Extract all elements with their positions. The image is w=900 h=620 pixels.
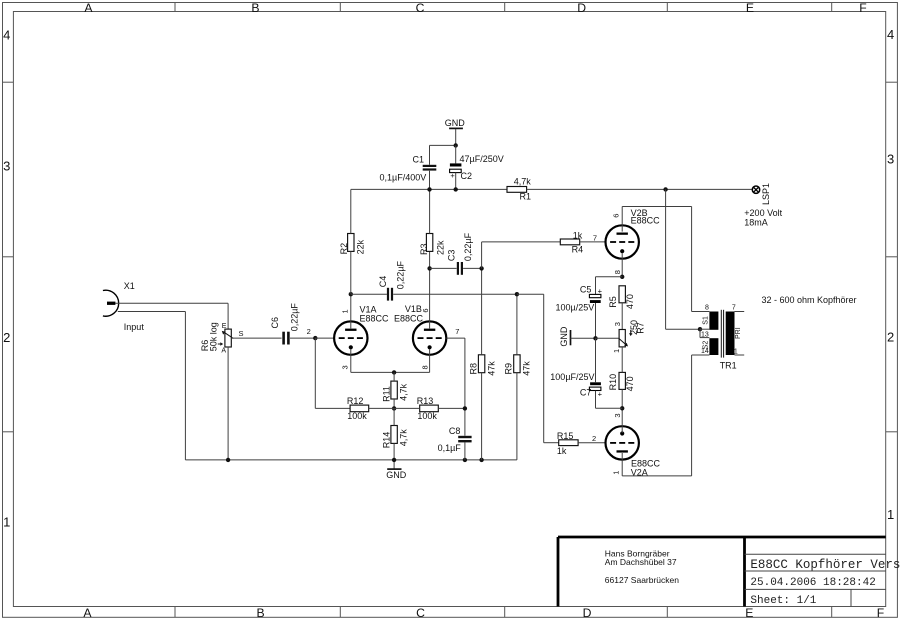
node grid V1B xyxy=(463,406,467,410)
svg-text:3: 3 xyxy=(887,152,894,167)
svg-text:R13: R13 xyxy=(417,396,434,406)
svg-text:50k log: 50k log xyxy=(208,322,218,351)
svg-text:2: 2 xyxy=(592,434,596,443)
node R11 bottom xyxy=(392,406,396,410)
svg-text:66127 Saarbrücken: 66127 Saarbrücken xyxy=(605,575,679,585)
node C1 C2 top xyxy=(454,143,458,147)
triode V1B xyxy=(413,321,446,354)
wire xyxy=(735,311,745,313)
svg-text:1: 1 xyxy=(341,309,350,313)
wire xyxy=(482,241,561,243)
resistor R9 xyxy=(514,355,520,373)
svg-text:X1: X1 xyxy=(124,281,135,291)
svg-text:F: F xyxy=(859,1,866,15)
svg-text:R14: R14 xyxy=(382,432,392,449)
wire xyxy=(429,145,431,164)
svg-text:C5: C5 xyxy=(580,284,592,294)
svg-text:2: 2 xyxy=(887,330,894,345)
wire xyxy=(455,129,457,146)
wire xyxy=(350,189,352,233)
svg-text:1: 1 xyxy=(612,471,621,475)
wire xyxy=(464,443,466,460)
svg-text:4,7k: 4,7k xyxy=(398,383,408,401)
svg-text:3: 3 xyxy=(341,365,350,369)
wire xyxy=(185,459,228,461)
svg-text:R5: R5 xyxy=(608,296,618,308)
svg-text:3: 3 xyxy=(613,322,622,326)
resistor R11 xyxy=(391,381,397,399)
node R8 top xyxy=(479,266,483,270)
svg-text:47µF/250V: 47µF/250V xyxy=(460,154,504,164)
svg-text:V1B: V1B xyxy=(405,304,422,314)
wire xyxy=(699,329,701,337)
svg-text:R15: R15 xyxy=(557,431,574,441)
wire xyxy=(544,442,559,444)
wire xyxy=(464,338,466,436)
wire xyxy=(543,294,545,443)
wire xyxy=(621,303,623,330)
wire xyxy=(369,407,394,409)
wire xyxy=(314,338,316,408)
wire xyxy=(517,293,544,295)
svg-text:2: 2 xyxy=(3,330,10,345)
wire xyxy=(290,337,315,339)
wire xyxy=(393,443,395,460)
svg-text:8: 8 xyxy=(613,270,622,274)
wire xyxy=(438,407,465,409)
svg-text:LSP1: LSP1 xyxy=(761,183,771,205)
svg-text:13: 13 xyxy=(701,331,709,338)
svg-text:C1: C1 xyxy=(413,154,425,164)
ground xyxy=(449,127,463,129)
wire xyxy=(351,293,387,295)
potentiometer R7 xyxy=(619,330,625,347)
wire xyxy=(429,251,431,328)
svg-text:18mA: 18mA xyxy=(744,217,768,227)
resistor R4 xyxy=(560,239,579,245)
wire xyxy=(429,189,431,233)
wire xyxy=(351,188,507,190)
svg-text:+: + xyxy=(598,286,603,295)
svg-text:F: F xyxy=(877,606,884,620)
triode V1A xyxy=(334,321,367,354)
wire xyxy=(596,276,623,278)
wire xyxy=(691,207,693,312)
svg-text:100k: 100k xyxy=(417,411,437,421)
wire xyxy=(350,294,352,328)
ground xyxy=(570,330,572,345)
wire xyxy=(595,277,597,295)
wire xyxy=(595,391,597,409)
node R9 top xyxy=(515,292,519,296)
capacitor C1 xyxy=(423,165,437,167)
connector X1 xyxy=(103,290,119,316)
svg-text:TR1: TR1 xyxy=(720,361,737,371)
capacitor C8 xyxy=(458,436,471,438)
svg-text:0,22µF: 0,22µF xyxy=(289,303,299,332)
capacitor C2 xyxy=(450,163,462,166)
wire xyxy=(571,337,596,339)
svg-text:470: 470 xyxy=(625,294,635,309)
svg-text:A: A xyxy=(83,606,92,620)
transformer TR1 xyxy=(709,312,718,330)
wire xyxy=(621,207,623,232)
svg-text:25.04.2006 18:28:42: 25.04.2006 18:28:42 xyxy=(750,577,875,589)
svg-text:R11: R11 xyxy=(382,386,392,402)
node C2 bus xyxy=(454,187,458,191)
svg-text:C6: C6 xyxy=(270,317,280,329)
resistor R15 xyxy=(559,440,578,446)
svg-text:R12: R12 xyxy=(347,396,364,406)
wire xyxy=(228,459,517,461)
wire xyxy=(393,399,395,408)
svg-text:C: C xyxy=(416,1,425,15)
svg-text:E: E xyxy=(745,606,753,620)
svg-text:0,22µF: 0,22µF xyxy=(463,232,473,261)
svg-text:6: 6 xyxy=(611,214,620,218)
svg-text:2: 2 xyxy=(307,327,311,336)
node TR1 pin13 xyxy=(698,327,702,331)
wire xyxy=(463,267,482,269)
svg-text:22k: 22k xyxy=(356,239,366,254)
svg-text:1: 1 xyxy=(734,349,738,356)
svg-text:C2: C2 xyxy=(461,171,473,181)
wire xyxy=(393,408,395,425)
svg-text:1: 1 xyxy=(3,515,10,530)
wire xyxy=(481,373,483,460)
wire xyxy=(735,354,745,356)
svg-text:E88CC: E88CC xyxy=(394,314,424,324)
potentiometer R6 xyxy=(225,329,231,347)
node V1A anode xyxy=(349,292,353,296)
node grid V1A xyxy=(313,336,317,340)
triode V2A xyxy=(606,426,639,459)
wire xyxy=(455,173,457,190)
svg-text:R8: R8 xyxy=(468,363,478,375)
node V2A top xyxy=(620,406,624,410)
svg-text:R7: R7 xyxy=(636,322,646,334)
wire xyxy=(578,442,605,444)
wire xyxy=(595,338,597,382)
svg-text:7: 7 xyxy=(455,327,459,336)
wire xyxy=(430,267,457,269)
wire xyxy=(596,337,619,339)
svg-text:4: 4 xyxy=(887,27,894,42)
wire xyxy=(622,206,691,208)
wire xyxy=(481,268,483,354)
svg-text:4: 4 xyxy=(3,28,10,43)
svg-text:100µF/25V: 100µF/25V xyxy=(550,372,594,382)
node R6 bottom xyxy=(226,458,230,462)
wire xyxy=(393,372,395,381)
wire xyxy=(350,349,352,372)
wire xyxy=(516,294,518,355)
svg-text:C7: C7 xyxy=(580,388,592,398)
svg-text:C8: C8 xyxy=(449,426,461,436)
node R14 bottom xyxy=(392,458,396,462)
node C8 bottom xyxy=(463,458,467,462)
svg-text:GND: GND xyxy=(386,470,407,480)
wire xyxy=(621,253,623,277)
wire xyxy=(700,337,709,339)
svg-text:100k: 100k xyxy=(347,411,367,421)
svg-text:3: 3 xyxy=(613,413,622,417)
resistor R8 xyxy=(478,355,484,373)
wire xyxy=(184,312,186,460)
resistor R13 xyxy=(420,405,439,412)
capacitor C3 xyxy=(457,262,459,275)
wire xyxy=(227,347,229,460)
svg-text:470: 470 xyxy=(625,376,635,391)
resistor R3 xyxy=(426,234,432,252)
svg-text:B: B xyxy=(251,1,259,15)
wire xyxy=(621,408,623,433)
svg-text:4,7k: 4,7k xyxy=(398,429,408,447)
svg-text:47k: 47k xyxy=(521,361,531,376)
wire xyxy=(580,241,606,243)
svg-text:+: + xyxy=(598,390,603,399)
ground xyxy=(393,460,395,469)
svg-text:0,1µF: 0,1µF xyxy=(438,443,462,453)
triode V2B xyxy=(606,225,639,258)
wire xyxy=(429,171,431,190)
svg-text:B: B xyxy=(257,606,265,620)
wire xyxy=(481,242,483,269)
svg-text:8: 8 xyxy=(421,365,430,369)
svg-text:GND: GND xyxy=(559,326,569,347)
wire xyxy=(115,302,228,304)
svg-text:7: 7 xyxy=(593,233,597,242)
svg-text:R4: R4 xyxy=(572,245,584,255)
wire xyxy=(596,407,623,409)
svg-text:Am Dachshübel 37: Am Dachshübel 37 xyxy=(605,557,677,567)
svg-text:R3: R3 xyxy=(419,243,429,255)
svg-text:S2: S2 xyxy=(703,341,710,350)
wire xyxy=(622,475,691,477)
resistor R1 xyxy=(507,187,527,193)
capacitor C5 xyxy=(589,294,601,297)
svg-text:S: S xyxy=(239,329,244,338)
capacitor C6 xyxy=(282,332,285,345)
svg-text:R9: R9 xyxy=(504,363,514,375)
svg-text:22k: 22k xyxy=(436,240,446,255)
wire xyxy=(315,407,350,409)
svg-text:D: D xyxy=(583,606,592,620)
wire xyxy=(700,328,709,330)
wire xyxy=(691,355,693,476)
svg-text:7: 7 xyxy=(732,305,736,312)
wire xyxy=(621,453,623,476)
svg-text:47k: 47k xyxy=(486,361,496,376)
resistor R5 xyxy=(619,286,625,303)
wire xyxy=(227,303,229,329)
wire xyxy=(692,311,710,313)
wire xyxy=(455,145,457,163)
svg-text:8: 8 xyxy=(705,305,709,312)
capacitor C4 xyxy=(387,288,389,301)
svg-text:+: + xyxy=(450,171,455,180)
wire xyxy=(527,188,752,190)
wire xyxy=(231,337,281,339)
svg-text:1: 1 xyxy=(887,507,894,522)
resistor R14 xyxy=(391,426,397,444)
resistor R10 xyxy=(619,372,625,389)
connector LSP1 xyxy=(752,186,759,193)
svg-text:E: E xyxy=(222,323,227,330)
svg-text:D: D xyxy=(577,1,586,15)
wire xyxy=(621,347,623,373)
svg-text:32 - 600 ohm Kopfhörer: 32 - 600 ohm Kopfhörer xyxy=(762,295,857,305)
resistor R2 xyxy=(348,234,354,252)
svg-text:4,7k: 4,7k xyxy=(514,177,532,187)
svg-text:E88CC: E88CC xyxy=(360,314,390,324)
svg-text:R2: R2 xyxy=(339,243,349,255)
svg-text:E88CC: E88CC xyxy=(631,216,661,226)
wire xyxy=(393,293,517,295)
svg-text:E: E xyxy=(746,1,754,15)
wire xyxy=(118,311,186,313)
wire xyxy=(666,328,700,330)
svg-text:GND: GND xyxy=(445,118,466,128)
wire xyxy=(692,354,710,356)
title block xyxy=(558,537,900,607)
svg-text:100µ/25V: 100µ/25V xyxy=(556,302,595,312)
wire xyxy=(315,337,334,339)
node C5 C7 mid xyxy=(593,336,597,340)
svg-text:PRI: PRI xyxy=(735,327,742,339)
svg-text:6: 6 xyxy=(421,308,430,312)
svg-text:R1: R1 xyxy=(520,191,532,201)
svg-text:3: 3 xyxy=(3,158,10,173)
svg-text:C4: C4 xyxy=(378,276,388,288)
wire xyxy=(621,389,623,408)
resistor R12 xyxy=(350,405,369,412)
svg-text:S1: S1 xyxy=(703,316,710,325)
wire xyxy=(446,337,465,339)
wire xyxy=(665,189,667,329)
svg-text:C: C xyxy=(416,606,425,620)
node B+ branch xyxy=(663,187,667,191)
wire xyxy=(429,349,431,372)
node V2B cathode xyxy=(620,275,624,279)
wire xyxy=(430,144,456,146)
svg-text:E88CC Kopfhörer Version 2: E88CC Kopfhörer Version 2 xyxy=(750,558,900,572)
svg-text:0,1µF/400V: 0,1µF/400V xyxy=(380,172,427,182)
svg-text:Sheet: 1/1: Sheet: 1/1 xyxy=(750,595,816,607)
svg-text:1k: 1k xyxy=(557,446,567,456)
svg-text:1: 1 xyxy=(612,349,621,353)
node R3 bottom xyxy=(427,266,431,270)
capacitor C7 xyxy=(590,382,601,385)
wire xyxy=(516,373,518,460)
wire xyxy=(394,407,420,409)
wire xyxy=(350,251,352,294)
svg-text:A: A xyxy=(84,1,93,15)
svg-text:R10: R10 xyxy=(608,374,618,391)
node C1 bus xyxy=(427,187,431,191)
svg-text:0,22µF: 0,22µF xyxy=(395,260,405,289)
node R8 bottom xyxy=(479,458,483,462)
svg-text:Input: Input xyxy=(124,322,145,332)
wire xyxy=(595,303,597,338)
node cathodes V1 xyxy=(392,370,396,374)
svg-text:A: A xyxy=(221,348,226,355)
wire xyxy=(351,371,430,373)
svg-text:C3: C3 xyxy=(446,250,456,262)
svg-text:1k: 1k xyxy=(573,230,583,240)
